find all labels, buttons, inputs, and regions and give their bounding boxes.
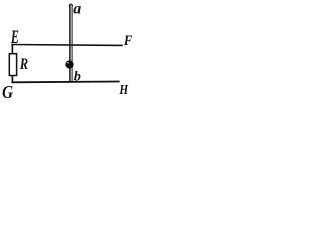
svg-text:F: F xyxy=(123,33,133,49)
svg-text:E: E xyxy=(10,28,19,48)
svg-text:R: R xyxy=(19,56,28,73)
svg-text:H: H xyxy=(119,83,129,98)
svg-text:G: G xyxy=(2,82,13,99)
svg-text:a: a xyxy=(73,0,81,17)
svg-text:b: b xyxy=(74,69,81,84)
